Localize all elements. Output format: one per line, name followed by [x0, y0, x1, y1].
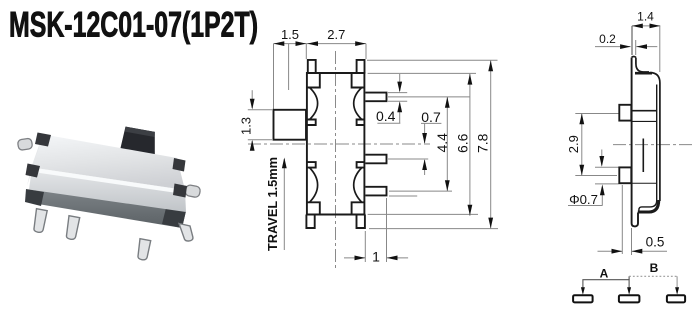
svg-text:B: B	[650, 261, 659, 275]
svg-text:1.4: 1.4	[637, 10, 654, 24]
svg-text:0.5: 0.5	[646, 235, 665, 250]
svg-text:7.8: 7.8	[474, 133, 490, 153]
svg-text:1.5: 1.5	[281, 27, 299, 42]
svg-text:2.9: 2.9	[566, 135, 581, 153]
svg-text:A: A	[600, 267, 609, 281]
svg-text:MSK-12C01-07(1P2T): MSK-12C01-07(1P2T)	[9, 6, 258, 45]
svg-text:Φ0.7: Φ0.7	[569, 192, 598, 207]
svg-text:0.4: 0.4	[376, 108, 396, 124]
svg-text:4.4: 4.4	[434, 133, 450, 153]
svg-text:2.7: 2.7	[327, 27, 345, 42]
svg-text:TRAVEL 1.5mm: TRAVEL 1.5mm	[265, 157, 280, 251]
svg-text:6.6: 6.6	[455, 133, 471, 153]
svg-text:1: 1	[372, 249, 380, 265]
svg-text:0.7: 0.7	[421, 109, 441, 125]
svg-text:1.3: 1.3	[239, 117, 254, 135]
svg-text:0.2: 0.2	[599, 32, 616, 46]
